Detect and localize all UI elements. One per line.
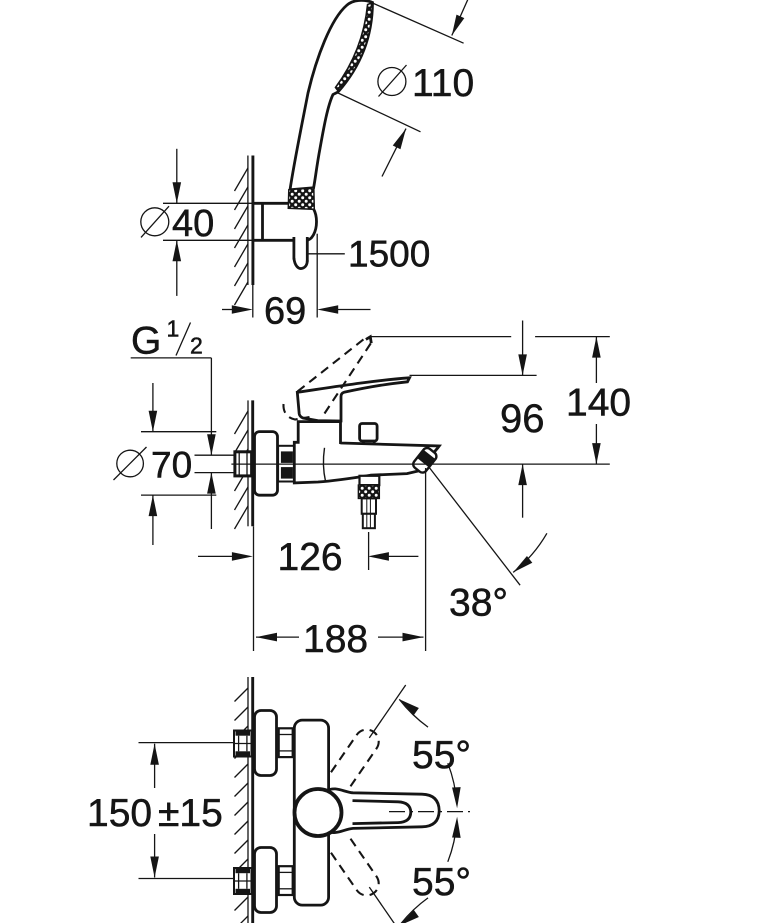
- dimension Ø110 lower extension line: [337, 93, 421, 132]
- lower union nut (top view): [279, 866, 293, 895]
- 55° lower slant line: [369, 887, 405, 923]
- svg-text:38°: 38°: [449, 582, 508, 625]
- spout joint curve: [323, 448, 325, 481]
- label G 1/2: [131, 316, 203, 363]
- dimension Ø110 lower arrow: [382, 129, 406, 177]
- lever top face inner line: [353, 801, 411, 824]
- shower hose going down: [294, 237, 307, 269]
- dimension 126 extension line (outlet axis): [368, 532, 370, 570]
- svg-text:40: 40: [172, 203, 214, 245]
- svg-text:126: 126: [278, 536, 343, 579]
- svg-text:G: G: [131, 320, 161, 363]
- wall (middle section) with hatching: [235, 400, 253, 529]
- hose connector knurled band: [288, 188, 314, 210]
- hand shower head outline: [290, 0, 373, 189]
- dimension 126 arrows: [198, 555, 234, 557]
- 55° upper arc and arrows: [399, 699, 428, 727]
- diverter knob on spout: [360, 424, 378, 445]
- G1/2 leader underline and dimension line: [131, 357, 212, 359]
- connection hex nut: [278, 446, 294, 482]
- lever handle (horizontal position): [297, 378, 409, 421]
- label Ø70: [114, 445, 193, 486]
- dimension 150±15 arrows: [154, 744, 156, 788]
- lower supply thread nut behind wall: [234, 868, 252, 894]
- dashed handle position 55° up: [331, 730, 379, 787]
- wall (top section) with hatching: [235, 156, 253, 306]
- svg-text:96: 96: [500, 397, 545, 441]
- 55° upper slant line: [369, 685, 405, 738]
- dimension 69 arrows: [222, 309, 234, 311]
- hand shower spray face band (knurled): [336, 3, 373, 92]
- label Ø110: [378, 62, 474, 105]
- svg-text:55°: 55°: [412, 734, 471, 777]
- upper supply thread nut behind wall: [234, 731, 252, 757]
- dimension 188 arrows: [256, 636, 299, 638]
- dimension 150±15 extension lines: [139, 742, 235, 744]
- escutcheon (side view): [255, 432, 278, 496]
- mixer body (top view): [294, 720, 328, 905]
- svg-text:2: 2: [190, 333, 203, 359]
- dimension 188 extension lines: [253, 526, 255, 651]
- svg-text:69: 69: [264, 291, 306, 333]
- G1/2 threaded pipe end behind wall: [235, 452, 252, 476]
- dimension Ø40 arrows: [176, 149, 178, 204]
- wall (bottom section) with hatching: [235, 677, 253, 923]
- dimension Ø70 arrows: [152, 383, 154, 432]
- shower outlet knurled band: [358, 485, 379, 498]
- aerator at spout tip: [411, 446, 438, 474]
- reference line from raised lever tip: [370, 336, 511, 338]
- dimension Ø70 lines: [141, 431, 216, 433]
- label Ø40: [141, 203, 214, 245]
- svg-text:1: 1: [167, 316, 180, 342]
- svg-text:188: 188: [303, 618, 368, 661]
- svg-text:±15: ±15: [158, 792, 223, 835]
- dimension 69 extension lines: [252, 285, 254, 318]
- reference line from lever tip: [410, 374, 537, 376]
- upper escutcheon (top view): [255, 711, 277, 776]
- centerline through body and spout: [231, 463, 609, 465]
- dimension 140 arrows: [595, 337, 597, 383]
- shower outlet thread steps: [362, 498, 376, 528]
- svg-text:140: 140: [566, 382, 631, 425]
- dimension Ø110 upper extension line: [373, 3, 464, 43]
- lever handle raised position (dashed): [283, 337, 371, 420]
- svg-text:150: 150: [87, 792, 152, 835]
- dimension Ø110 upper arrow: [452, 0, 469, 36]
- handle centerline: [389, 811, 470, 813]
- svg-text:55°: 55°: [412, 861, 471, 904]
- lower escutcheon (top view): [255, 848, 277, 913]
- mixer body and spout (side view): [294, 422, 439, 483]
- lever handle (top view): [326, 789, 439, 833]
- lever knob circle: [295, 789, 342, 836]
- bracket round cap: [306, 203, 317, 240]
- wall holder bracket (elbow): [254, 203, 317, 240]
- 55° lower arc and arrows: [448, 821, 457, 862]
- 38 degree slant line from spout tip: [429, 467, 521, 586]
- svg-text:70: 70: [151, 445, 192, 486]
- svg-text:1500: 1500: [348, 234, 430, 275]
- dimension 96 arrows: [522, 321, 524, 376]
- svg-text:110: 110: [412, 62, 474, 105]
- extension lines of thread (left of square): [195, 454, 235, 456]
- 38 degree arc with arrow: [513, 533, 547, 572]
- dimension Ø40 lines: [163, 202, 254, 204]
- leader line 1500 (hose length): [309, 253, 345, 255]
- upper union nut (top view): [279, 728, 293, 757]
- shower outlet below spout: collar: [360, 476, 380, 485]
- dashed handle position 55° down: [331, 839, 379, 896]
